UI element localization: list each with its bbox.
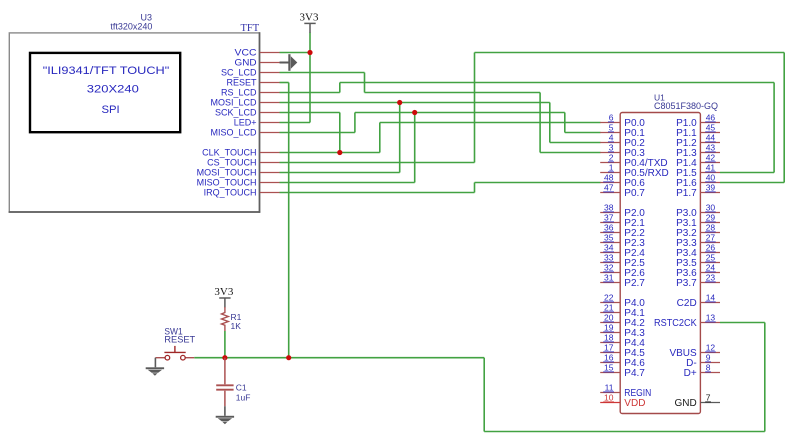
svg-text:9: 9 xyxy=(706,353,711,363)
svg-text:GND: GND xyxy=(235,58,258,68)
svg-text:RSTC2CK: RSTC2CK xyxy=(654,318,697,329)
svg-text:LED+: LED+ xyxy=(234,118,257,128)
svg-text:21: 21 xyxy=(604,303,614,313)
svg-text:TFT: TFT xyxy=(241,23,260,34)
svg-text:46: 46 xyxy=(706,113,716,123)
svg-text:RS_LCD: RS_LCD xyxy=(221,88,257,98)
svg-text:5: 5 xyxy=(609,123,614,133)
svg-text:C2D: C2D xyxy=(677,298,697,309)
svg-text:28: 28 xyxy=(706,223,716,233)
svg-text:13: 13 xyxy=(706,313,716,323)
svg-text:24: 24 xyxy=(706,263,716,273)
svg-text:3V3: 3V3 xyxy=(300,12,319,24)
svg-text:16: 16 xyxy=(604,353,614,363)
svg-text:VDD: VDD xyxy=(624,398,645,409)
svg-text:19: 19 xyxy=(604,323,614,333)
svg-text:44: 44 xyxy=(706,133,716,143)
svg-text:MISO_TOUCH: MISO_TOUCH xyxy=(197,178,257,188)
svg-text:6: 6 xyxy=(609,113,614,123)
svg-text:27: 27 xyxy=(706,233,716,243)
svg-text:320X240: 320X240 xyxy=(87,83,139,95)
svg-text:22: 22 xyxy=(604,293,614,303)
svg-text:GND: GND xyxy=(674,398,696,409)
svg-text:35: 35 xyxy=(604,233,614,243)
svg-text:11: 11 xyxy=(605,383,614,393)
svg-text:"ILI9341/TFT TOUCH": "ILI9341/TFT TOUCH" xyxy=(43,65,170,77)
svg-text:RESET: RESET xyxy=(164,335,195,345)
svg-text:2: 2 xyxy=(609,153,614,163)
svg-text:IRQ_TOUCH: IRQ_TOUCH xyxy=(204,188,257,198)
svg-text:34: 34 xyxy=(604,243,614,253)
svg-text:17: 17 xyxy=(604,343,614,353)
svg-text:SPI: SPI xyxy=(102,104,120,116)
svg-text:23: 23 xyxy=(706,273,716,283)
svg-text:32: 32 xyxy=(604,263,614,273)
svg-text:C1: C1 xyxy=(236,382,247,392)
svg-text:MISO_LCD: MISO_LCD xyxy=(210,128,257,138)
svg-text:43: 43 xyxy=(706,143,716,153)
svg-text:3V3: 3V3 xyxy=(214,286,233,298)
svg-text:25: 25 xyxy=(706,253,716,263)
svg-text:VCC: VCC xyxy=(235,48,258,58)
svg-text:39: 39 xyxy=(706,183,716,193)
svg-text:D+: D+ xyxy=(684,368,697,379)
svg-text:33: 33 xyxy=(604,253,614,263)
svg-text:P4.7: P4.7 xyxy=(624,368,645,379)
svg-text:7: 7 xyxy=(706,393,711,403)
svg-text:18: 18 xyxy=(604,333,614,343)
svg-text:8: 8 xyxy=(706,363,711,373)
svg-text:1uF: 1uF xyxy=(236,393,251,403)
svg-text:P0.7: P0.7 xyxy=(624,188,645,199)
svg-text:P2.7: P2.7 xyxy=(624,278,645,289)
svg-text:CLK_TOUCH: CLK_TOUCH xyxy=(202,148,256,158)
svg-text:SC_LCD: SC_LCD xyxy=(221,68,257,78)
svg-text:3: 3 xyxy=(609,143,614,153)
svg-text:48: 48 xyxy=(604,173,614,183)
svg-text:CS_TOUCH: CS_TOUCH xyxy=(207,158,256,168)
svg-text:10: 10 xyxy=(604,393,614,403)
svg-text:MOSI_LCD: MOSI_LCD xyxy=(210,98,257,108)
svg-text:29: 29 xyxy=(706,213,716,223)
svg-text:40: 40 xyxy=(706,173,716,183)
svg-text:30: 30 xyxy=(706,203,716,213)
svg-text:1K: 1K xyxy=(231,321,242,331)
svg-text:SCK_LCD: SCK_LCD xyxy=(215,108,257,118)
svg-text:14: 14 xyxy=(706,293,716,303)
svg-text:36: 36 xyxy=(604,223,614,233)
svg-text:45: 45 xyxy=(706,123,716,133)
svg-text:1: 1 xyxy=(609,163,614,173)
svg-text:tft320x240: tft320x240 xyxy=(110,21,152,31)
svg-text:38: 38 xyxy=(604,203,614,213)
svg-text:37: 37 xyxy=(604,213,614,223)
svg-text:P1.7: P1.7 xyxy=(676,188,697,199)
svg-text:15: 15 xyxy=(604,363,614,373)
svg-text:MOSI_TOUCH: MOSI_TOUCH xyxy=(197,168,257,178)
svg-text:42: 42 xyxy=(706,153,716,163)
svg-text:4: 4 xyxy=(609,133,614,143)
svg-text:P3.7: P3.7 xyxy=(676,278,697,289)
svg-text:47: 47 xyxy=(604,183,614,193)
svg-text:41: 41 xyxy=(706,163,716,173)
svg-text:RESET: RESET xyxy=(226,78,257,88)
svg-text:31: 31 xyxy=(604,273,614,283)
svg-text:12: 12 xyxy=(706,343,716,353)
svg-text:C8051F380-GQ: C8051F380-GQ xyxy=(654,101,718,111)
svg-text:20: 20 xyxy=(604,313,614,323)
svg-text:26: 26 xyxy=(706,243,716,253)
